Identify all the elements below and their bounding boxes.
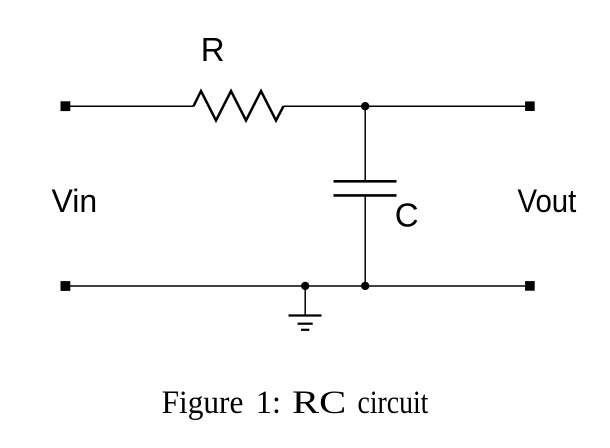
wire top-left (Vin to resistor) bbox=[70, 105, 194, 107]
terminal Vout bottom bbox=[525, 281, 535, 291]
capacitor C top plate bbox=[334, 180, 397, 183]
node bottom (capacitor junction dot) bbox=[361, 282, 369, 290]
svg-text:R: R bbox=[201, 31, 225, 68]
ground bbox=[289, 316, 322, 330]
svg-text:Vin: Vin bbox=[52, 183, 98, 219]
wire capacitor top lead bbox=[364, 106, 366, 181]
resistor R bbox=[194, 91, 284, 121]
svg-text:Figure: Figure bbox=[162, 385, 244, 421]
wire top-right (resistor to Vout terminal) bbox=[284, 105, 526, 107]
wire ground stub bbox=[304, 286, 306, 316]
wire capacitor bottom lead bbox=[364, 195, 366, 286]
node ground (junction dot) bbox=[301, 282, 309, 290]
caption Figure 1: RC circuit bbox=[162, 385, 429, 421]
terminal Vin bottom bbox=[61, 281, 71, 291]
svg-text:C: C bbox=[395, 197, 419, 234]
node top (junction dot) bbox=[361, 102, 369, 110]
svg-text:circuit: circuit bbox=[358, 385, 429, 421]
capacitor C bottom plate bbox=[334, 194, 397, 197]
svg-text:Vout: Vout bbox=[518, 183, 577, 219]
terminal Vout top bbox=[525, 101, 535, 111]
wire bottom rail bbox=[70, 285, 525, 287]
terminal Vin top bbox=[61, 101, 71, 111]
svg-text:RC: RC bbox=[292, 385, 346, 421]
svg-text:1:: 1: bbox=[256, 385, 281, 421]
